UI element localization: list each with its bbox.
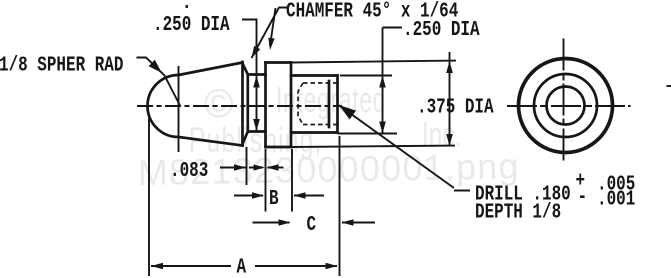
svg-text:.001: .001 <box>597 186 635 211</box>
svg-text:DEPTH 1/8: DEPTH 1/8 <box>475 199 561 224</box>
svg-text:-: - <box>578 184 588 209</box>
svg-text:Integrated: Integrated <box>276 81 386 120</box>
svg-text:©: © <box>204 82 233 126</box>
svg-text:A: A <box>237 254 247 278</box>
svg-text:.375 DIA: .375 DIA <box>417 94 494 119</box>
svg-text:B: B <box>269 186 279 211</box>
svg-text:.250 DIA: .250 DIA <box>153 12 230 37</box>
svg-text:1/8 SPHER RAD: 1/8 SPHER RAD <box>0 52 123 77</box>
svg-text:C: C <box>307 212 317 237</box>
svg-text:.250 DIA: .250 DIA <box>403 17 480 42</box>
svg-text:.083: .083 <box>170 158 208 183</box>
